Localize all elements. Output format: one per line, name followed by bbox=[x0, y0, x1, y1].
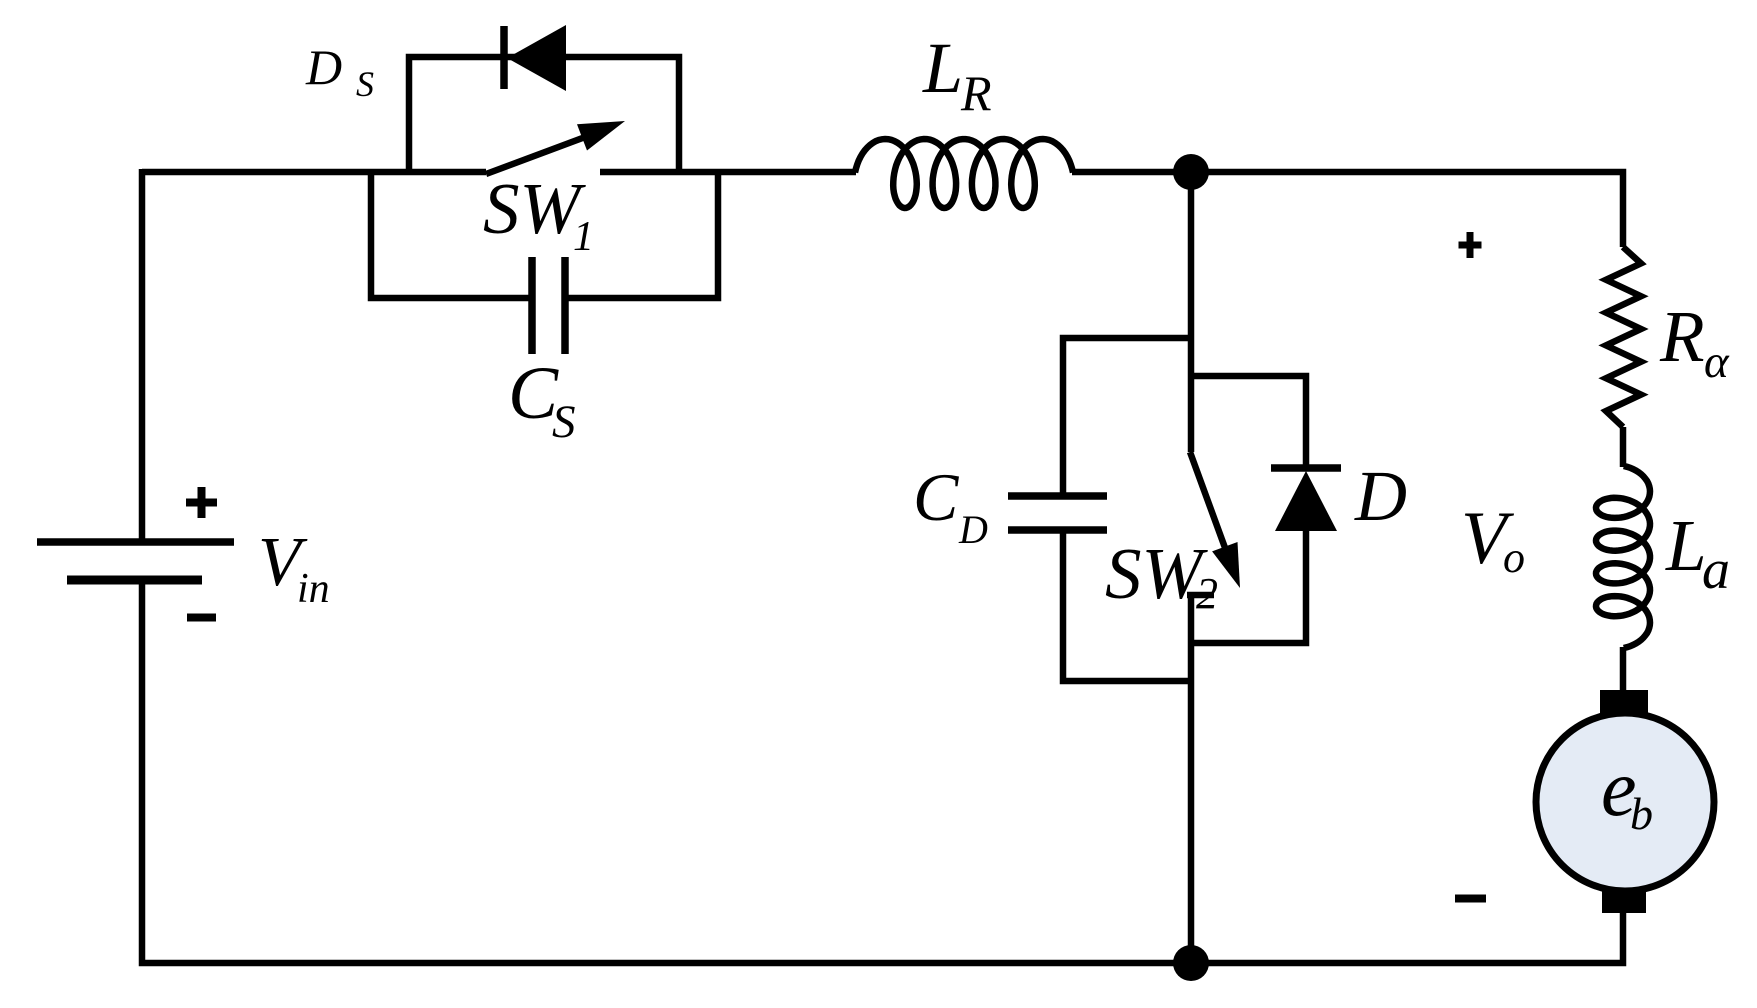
diode DS cathode bar bbox=[500, 26, 508, 89]
Vo minus sign bbox=[1455, 895, 1486, 903]
svg-text:α: α bbox=[1704, 336, 1730, 388]
inductor La coil bbox=[1596, 466, 1650, 648]
label CS bbox=[508, 352, 576, 448]
label La bbox=[1665, 505, 1730, 601]
switch SW1 blade bbox=[486, 130, 604, 174]
label DS bbox=[305, 39, 374, 104]
switch SW1 arrowhead bbox=[577, 121, 625, 151]
label eb bbox=[1601, 745, 1653, 839]
switch SW2 bottom contact tick bbox=[1187, 592, 1214, 599]
resistor Ra zigzag bbox=[1606, 247, 1641, 427]
label CD bbox=[913, 459, 988, 552]
svg-text:in: in bbox=[297, 566, 330, 612]
battery Vin long plate bbox=[37, 538, 234, 546]
svg-text:o: o bbox=[1503, 533, 1525, 582]
wire top rail left (battery + to SW1 pivot) bbox=[142, 169, 486, 176]
label Ra bbox=[1659, 296, 1730, 388]
label LR bbox=[922, 28, 992, 121]
capacitor CD loop bottom wire bbox=[1063, 533, 1191, 681]
svg-text:D: D bbox=[1354, 456, 1407, 536]
svg-text:R: R bbox=[960, 65, 992, 121]
wire LR to node A and to right corner, down to Ra bbox=[1072, 172, 1623, 247]
node A junction dot bbox=[1173, 154, 1209, 190]
svg-text:a: a bbox=[1702, 539, 1730, 601]
diode DS loop wire bbox=[409, 57, 679, 175]
diode D loop top wire bbox=[1191, 376, 1306, 465]
capacitor CS right loop wire bbox=[568, 169, 718, 298]
svg-text:D: D bbox=[305, 39, 342, 95]
wire battery bottom lead, bottom rail, up to motor terminal bbox=[142, 580, 1623, 963]
capacitor CD plates bbox=[1008, 496, 1107, 530]
svg-text:S: S bbox=[552, 396, 576, 448]
diode D cathode bar bbox=[1271, 464, 1341, 472]
svg-text:L: L bbox=[922, 28, 963, 108]
svg-text:SW: SW bbox=[1105, 533, 1209, 614]
svg-text:1: 1 bbox=[573, 214, 594, 260]
svg-text:b: b bbox=[1630, 788, 1653, 839]
svg-text:SW: SW bbox=[483, 168, 587, 249]
motor eb top terminal bbox=[1600, 690, 1648, 714]
svg-text:R: R bbox=[1659, 296, 1705, 377]
capacitor CS plates bbox=[532, 257, 565, 354]
label Vin bbox=[258, 524, 330, 612]
switch SW2 blade bbox=[1190, 452, 1228, 556]
svg-text:2: 2 bbox=[1196, 569, 1218, 618]
Vo plus sign bbox=[1459, 232, 1482, 258]
svg-text:S: S bbox=[356, 64, 374, 104]
switch SW2 arrowhead bbox=[1212, 542, 1240, 588]
motor eb bottom terminal bbox=[1602, 890, 1646, 913]
svg-text:L: L bbox=[1665, 505, 1707, 586]
wire top rail right (SW1 contact to LR) bbox=[600, 169, 856, 176]
battery minus sign bbox=[187, 614, 216, 622]
wire Ra to La bbox=[1620, 427, 1627, 467]
label D bbox=[1354, 456, 1407, 536]
bottom node junction dot bbox=[1173, 945, 1209, 981]
diode D loop bottom wire bbox=[1191, 531, 1306, 643]
capacitor CD loop top wire bbox=[1063, 338, 1191, 493]
diode D triangle bbox=[1275, 471, 1337, 531]
label Vo bbox=[1461, 497, 1525, 582]
battery Vin short plate bbox=[67, 576, 202, 585]
wire node A down to SW2 pivot bbox=[1188, 172, 1195, 452]
capacitor CS left loop wire bbox=[371, 169, 529, 298]
svg-text:D: D bbox=[958, 507, 988, 552]
motor eb circle bbox=[1536, 713, 1714, 891]
wire La to motor terminal bbox=[1620, 647, 1627, 692]
svg-text:C: C bbox=[913, 459, 959, 535]
label SW1 bbox=[483, 168, 594, 260]
wire SW2 contact down to bottom node bbox=[1188, 595, 1195, 963]
diode DS triangle bbox=[507, 25, 566, 91]
battery plus sign bbox=[186, 487, 217, 518]
wire left vertical (battery top lead) bbox=[139, 169, 146, 540]
label SW2 bbox=[1105, 533, 1218, 618]
inductor LR coil bbox=[855, 139, 1073, 208]
